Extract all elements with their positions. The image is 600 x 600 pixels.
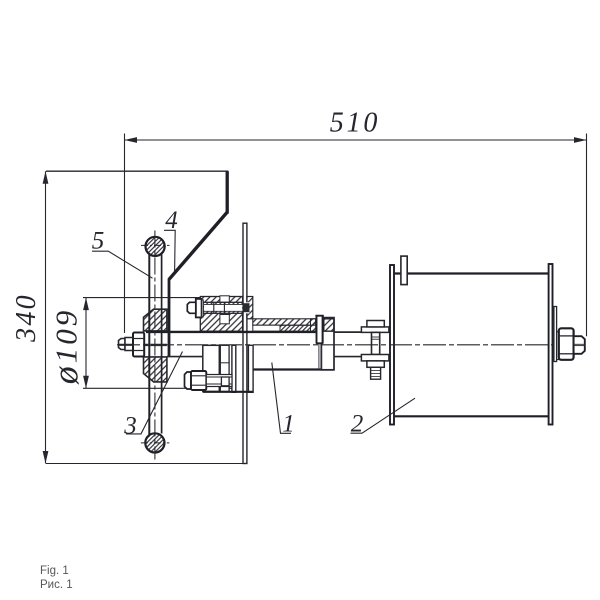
hub nut: bolt tip <box>119 339 126 350</box>
top bolt head <box>187 302 196 313</box>
hub nut facets <box>134 338 144 340</box>
shaft bottom line segs <box>167 356 203 358</box>
bottom bolt small nut <box>221 377 229 386</box>
leader+label 5 <box>92 251 153 278</box>
leader+label 2 <box>351 398 416 433</box>
block notch lower <box>220 315 229 324</box>
dim 340 ext bottom <box>46 463 248 465</box>
hub bore lines <box>144 344 167 345</box>
handwheel rim bottom circle <box>145 433 164 452</box>
small hatch right of packing <box>311 319 316 331</box>
wheel axis centerline <box>154 231 156 460</box>
sleeve flange lower <box>248 345 253 392</box>
chute right vertical thick <box>226 171 229 213</box>
dim 510 ext left <box>124 134 126 334</box>
cylinder body <box>395 274 548 417</box>
arrow 510 right <box>574 137 587 143</box>
top bolt washer <box>202 300 204 317</box>
pipe top wall strip hatched <box>253 319 316 325</box>
gland stud channel <box>318 316 322 344</box>
handwheel rim top circle <box>146 237 165 256</box>
arrow 340 top <box>43 171 49 184</box>
arrow d109 top <box>83 298 89 311</box>
block notch upper <box>220 296 229 303</box>
arrow 340 bottom <box>43 451 49 464</box>
right nut hex <box>559 328 574 360</box>
main centerline <box>117 344 552 346</box>
svg-text:5: 5 <box>92 228 105 255</box>
top bolt shaft threaded <box>203 302 243 313</box>
coupling upper flange bar <box>361 327 389 333</box>
top circle crosshair <box>141 244 170 246</box>
shaft top right seg <box>334 331 361 333</box>
coupling stem <box>372 332 380 354</box>
svg-text:4: 4 <box>165 207 178 234</box>
chute diagonal thick <box>169 212 227 279</box>
block right of wall hatched <box>247 297 253 319</box>
gland stud inner lines <box>318 344 320 370</box>
bottom bolt head <box>185 372 192 389</box>
cylinder right flange <box>549 264 553 425</box>
shaft top thick line <box>146 331 316 333</box>
cylinder top tab <box>401 256 407 285</box>
handwheel disc lines <box>149 254 161 435</box>
svg-text:510: 510 <box>330 108 380 139</box>
svg-text:ø109: ø109 <box>46 308 86 386</box>
chute part 4 <box>169 171 227 357</box>
cylinder left flange <box>390 265 394 425</box>
coupling lower flange bar <box>361 355 389 361</box>
hub bottom hatched <box>144 357 167 382</box>
hub nut: washer rect <box>125 338 133 351</box>
bracket block hatched (upper, left of wall) <box>200 297 242 332</box>
dim 510 line <box>125 139 587 141</box>
hub top hatched <box>144 309 167 331</box>
arrow 510 left <box>125 137 138 143</box>
hub nut: hex <box>133 333 144 357</box>
right bolt tip <box>574 336 585 354</box>
top bolt hole band <box>203 302 249 313</box>
bearing white band <box>253 325 280 331</box>
top bolt dark tip <box>244 303 250 312</box>
dim 510 ext right <box>586 134 588 337</box>
dim d109 ext top <box>83 297 201 299</box>
svg-text:2: 2 <box>351 411 364 438</box>
dim d109 ext bottom <box>83 387 235 389</box>
dim 340 line <box>45 171 47 463</box>
hub nut thread lines <box>119 343 133 345</box>
coupling lower block <box>367 361 384 367</box>
lever plate C <box>232 345 236 392</box>
plate behind right nut <box>554 307 557 362</box>
packing hatched <box>280 325 311 331</box>
svg-text:1: 1 <box>282 411 295 438</box>
dim 340 ext top / chute top edge <box>46 170 228 172</box>
wall plate <box>243 223 247 463</box>
svg-text:3: 3 <box>123 413 137 440</box>
leader+label 4 <box>164 230 175 271</box>
end cap hatched top <box>324 319 334 331</box>
bottom circle crosshair <box>141 442 170 444</box>
leader+label 3 <box>126 352 183 434</box>
leader+label 1 <box>272 363 291 434</box>
dim d109 line <box>85 298 87 389</box>
lever plate A <box>203 345 220 391</box>
lever plate B <box>220 345 229 391</box>
svg-text:340: 340 <box>11 293 42 343</box>
chute lower vertical <box>168 278 171 357</box>
coupling lower stud <box>371 367 381 379</box>
pipe bottom edge thick <box>253 368 334 370</box>
bottom bolt shaft <box>206 375 232 387</box>
gland stud bars <box>315 316 323 344</box>
gland end cap <box>321 318 334 370</box>
figure caption <box>40 564 73 592</box>
plates bottom thick line <box>203 391 253 393</box>
top bolt hex <box>196 299 202 318</box>
bottom bolt hex <box>191 371 206 390</box>
right nut washer <box>557 332 559 360</box>
arrow d109 bottom <box>83 376 89 389</box>
coupling upper block <box>367 321 384 327</box>
